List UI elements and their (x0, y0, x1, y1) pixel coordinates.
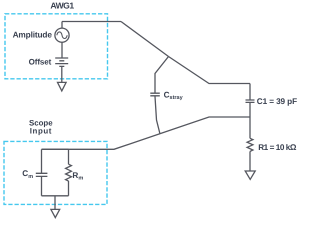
resistor R1 zigzag (247, 138, 253, 151)
wire R1 to ground (249, 151, 251, 171)
AWG1 enclosure dashed box (5, 14, 108, 79)
wire Rm branch bottom (68, 181, 70, 196)
source U AWG amplitude sine source circle (55, 28, 69, 42)
wire Cm branch bottom (41, 177, 43, 196)
wire Rm branch top (68, 149, 70, 164)
ground symbol below R1 (245, 171, 255, 179)
Scope Input enclosure dashed box (4, 141, 107, 204)
svg-text:Input: Input (30, 127, 52, 136)
ground symbol scope input (51, 209, 60, 217)
capacitor Cstray (150, 93, 160, 96)
svg-text:Amplitude: Amplitude (13, 30, 53, 40)
wire top diagonal to C1 (121, 22, 250, 84)
capacitor Cm (36, 173, 48, 176)
wire source bottom to battery (61, 42, 63, 58)
wire scope combo bottom (42, 195, 69, 197)
wire scope ground tap (54, 196, 56, 210)
wire Cstray bottom branch to lower rail junction (155, 96, 160, 134)
resistor Rm zigzag (66, 164, 72, 181)
wire C1 bottom to junction and to R1 (249, 103, 251, 138)
svg-text:Offset: Offset (29, 58, 52, 67)
svg-text:R1 = 10 kΩ: R1 = 10 kΩ (258, 143, 297, 152)
sine wave symbol inside source (57, 32, 67, 39)
wire Cstray top branch from junction (155, 57, 169, 93)
wire source top to rail (61, 22, 63, 29)
offset battery symbol (55, 58, 68, 66)
wire scope combo top (42, 148, 69, 150)
wire battery to ground (61, 67, 63, 83)
wire bottom rail from scope box to junction (42, 117, 251, 149)
wire Cm branch top (41, 149, 43, 173)
ground symbol below AWG offset (58, 82, 67, 91)
wire C1 branch top (249, 84, 251, 100)
capacitor C1 (246, 100, 255, 102)
wire top rail horizontal (62, 21, 121, 23)
svg-text:C1 = 39 pF: C1 = 39 pF (257, 97, 297, 106)
svg-text:AWG1: AWG1 (50, 1, 74, 11)
